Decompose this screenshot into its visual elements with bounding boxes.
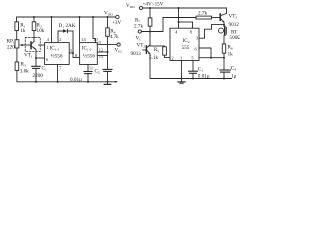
svg-text:R6: R6	[228, 45, 233, 51]
wire pin7 to bus	[57, 65, 59, 82]
wire right VDD rail	[143, 8, 227, 13]
svg-text:4: 4	[47, 37, 50, 42]
node emitter-C1-pin6	[35, 57, 37, 59]
capacitor C3	[192, 61, 194, 72]
svg-text:C4: C4	[231, 66, 236, 72]
svg-text:5: 5	[191, 56, 194, 61]
svg-text:0.01μ: 0.01μ	[70, 77, 82, 83]
transistor VT2	[145, 46, 147, 53]
svg-text:220: 220	[7, 45, 15, 51]
wire pin9 output	[97, 44, 117, 46]
wire pin14 from rail	[79, 17, 81, 43]
wire RP1 wiper	[23, 44, 31, 46]
wire pin4 from rail	[51, 17, 53, 43]
transistor VT1	[30, 42, 32, 49]
svg-text:9013: 9013	[131, 51, 142, 57]
svg-text:VT3: VT3	[229, 14, 238, 20]
wire R1 to RP1	[16, 31, 18, 40]
node rail-pin10	[92, 16, 94, 18]
svg-text:RP1: RP1	[7, 39, 15, 45]
svg-text:0.01μ: 0.01μ	[198, 74, 210, 80]
svg-text:C3: C3	[198, 67, 203, 73]
node pins4-8 tie	[178, 21, 180, 23]
wire pin6	[36, 57, 45, 59]
svg-text:C1: C1	[42, 66, 47, 72]
svg-text:VDD: VDD	[104, 11, 113, 17]
resistor R1	[15, 22, 19, 31]
capacitor timing C (0.01u)	[107, 56, 109, 70]
IC2 555 box	[170, 28, 199, 60]
wire VT2 emitter to right bus	[150, 54, 232, 79]
wire pin10 from rail	[93, 17, 96, 43]
dashed box around VT1	[25, 37, 40, 51]
svg-text:9012: 9012	[229, 22, 240, 28]
wire VT1 to pin1	[39, 44, 45, 46]
wire left VDD rail	[17, 17, 116, 22]
svg-text:3: 3	[196, 36, 199, 41]
svg-text:7: 7	[59, 66, 62, 71]
node bus-C2	[87, 81, 89, 83]
wire R5 to 555 pin2	[165, 55, 171, 57]
wire 555 pin4 pin8 supply	[178, 8, 180, 28]
node rail-R2	[33, 16, 35, 18]
svg-text:10k: 10k	[37, 28, 45, 34]
wire R6 to trigger	[223, 53, 225, 58]
node rail-R7	[149, 7, 151, 9]
svg-text:1k: 1k	[20, 28, 26, 34]
svg-text:+: +	[217, 66, 220, 71]
resistor R3	[15, 62, 19, 71]
svg-text:1: 1	[180, 56, 182, 61]
wire collector to R5	[150, 45, 165, 47]
svg-text:V02: V02	[115, 48, 122, 54]
resistor R2	[33, 17, 35, 22]
resistor R6	[222, 44, 225, 53]
svg-text:3.6k: 3.6k	[20, 69, 29, 75]
wire VT3 emitter	[223, 22, 225, 26]
svg-text:+3V: +3V	[112, 20, 122, 26]
svg-text:2: 2	[59, 37, 61, 42]
svg-text:Vi: Vi	[136, 36, 141, 42]
svg-text:1: 1	[47, 45, 49, 50]
wire RP1 bottom to R3	[16, 48, 18, 62]
svg-text:1k: 1k	[228, 52, 234, 58]
terminal Vo2	[117, 43, 120, 46]
node bus-C1	[35, 81, 37, 83]
IC1-2 box (half 556)	[80, 43, 98, 65]
node rail-pin14	[79, 16, 81, 18]
wire R3 to ground bus	[17, 70, 117, 81]
wire 555 pin6 tie	[199, 48, 211, 58]
svg-text:IC1-1: IC1-1	[50, 46, 60, 52]
diode D1	[58, 31, 63, 43]
svg-text:2: 2	[172, 56, 174, 61]
svg-text:13: 13	[99, 54, 104, 59]
node rail-pin4	[51, 16, 53, 18]
wire 555 pin3 output	[199, 25, 224, 39]
svg-text:500Ω: 500Ω	[230, 35, 241, 41]
wire pin12	[97, 51, 107, 53]
node rail-R4	[107, 16, 109, 18]
node rail-555	[178, 7, 180, 9]
svg-text:6: 6	[195, 47, 198, 52]
wire earphone to R6	[223, 35, 225, 44]
capacitor C4	[223, 58, 225, 70]
svg-text:VT2: VT2	[137, 43, 146, 49]
op-amp? no: IC1-1 box (half 556)	[45, 43, 70, 65]
capacitor C2	[87, 65, 89, 72]
resistor R4	[107, 17, 109, 28]
wire R4 to pins 12,13	[107, 36, 109, 55]
resistor R7 2.7k	[149, 8, 151, 18]
wire 555 pin1 to bus	[181, 61, 183, 79]
terminal VDD left +3V	[116, 15, 119, 18]
node bus-gnd	[181, 78, 183, 80]
svg-text:+4V~15V: +4V~15V	[143, 2, 164, 8]
svg-text:6: 6	[46, 57, 49, 62]
svg-text:14: 14	[81, 37, 86, 42]
node tie-trigger	[210, 57, 212, 59]
wire R2 to VT1 collector	[33, 31, 35, 42]
earphone B	[219, 28, 224, 33]
svg-text:D12AK: D12AK	[59, 23, 76, 29]
svg-text:4: 4	[175, 30, 178, 35]
svg-text:2.7k: 2.7k	[198, 11, 207, 17]
svg-text:2200: 2200	[33, 73, 44, 79]
wire VT1 emitter	[35, 49, 37, 58]
node bus-pin7	[57, 81, 59, 83]
transistor VT3	[219, 14, 221, 21]
wire pin13	[97, 55, 107, 57]
svg-text:VDD: VDD	[126, 3, 135, 9]
potentiometer RP1	[15, 40, 19, 48]
wire bus left arrow end	[115, 81, 118, 83]
wire trigger line	[199, 57, 224, 59]
svg-text:12: 12	[99, 48, 103, 53]
capacitor C1	[35, 58, 37, 66]
svg-text:½556: ½556	[51, 53, 63, 60]
node D1-pin5	[72, 52, 74, 54]
svg-text:555: 555	[182, 45, 190, 51]
ground symbol	[181, 79, 183, 82]
node R4-pin12	[107, 51, 109, 53]
node bus-C4	[223, 78, 225, 80]
svg-text:C2: C2	[95, 69, 100, 75]
svg-text:5.1k: 5.1k	[149, 55, 158, 61]
node bus-C3	[192, 78, 194, 80]
terminal Vi	[138, 30, 141, 33]
svg-text:8: 8	[190, 30, 193, 35]
wire VT2 collector	[149, 32, 151, 47]
svg-text:½556: ½556	[83, 53, 95, 60]
wire D1 to pin8	[73, 31, 80, 58]
svg-text:VT1: VT1	[24, 53, 33, 59]
svg-text:R5: R5	[154, 47, 159, 53]
svg-text:2.7k: 2.7k	[134, 24, 143, 30]
svg-text:IC2: IC2	[183, 38, 190, 44]
node Vi-R7	[149, 31, 151, 33]
ground under bus	[107, 82, 109, 84]
node bus-Ct	[107, 81, 109, 83]
wire pin5 stub	[69, 52, 73, 54]
svg-text:R3: R3	[21, 62, 26, 68]
resistor R5	[163, 47, 167, 55]
wire Vi to 2.7k feed	[141, 18, 196, 32]
svg-text:IC1-2: IC1-2	[82, 46, 92, 52]
wire R7 to Vi node	[149, 26, 151, 31]
terminal VDD right	[139, 6, 142, 9]
svg-text:4.7k: 4.7k	[110, 34, 119, 40]
svg-text:11: 11	[89, 66, 93, 71]
resistor R2.7k top	[196, 16, 212, 19]
node trigger-R6	[223, 57, 225, 59]
node emitter-output	[223, 24, 225, 26]
svg-text:1μ: 1μ	[231, 74, 237, 80]
